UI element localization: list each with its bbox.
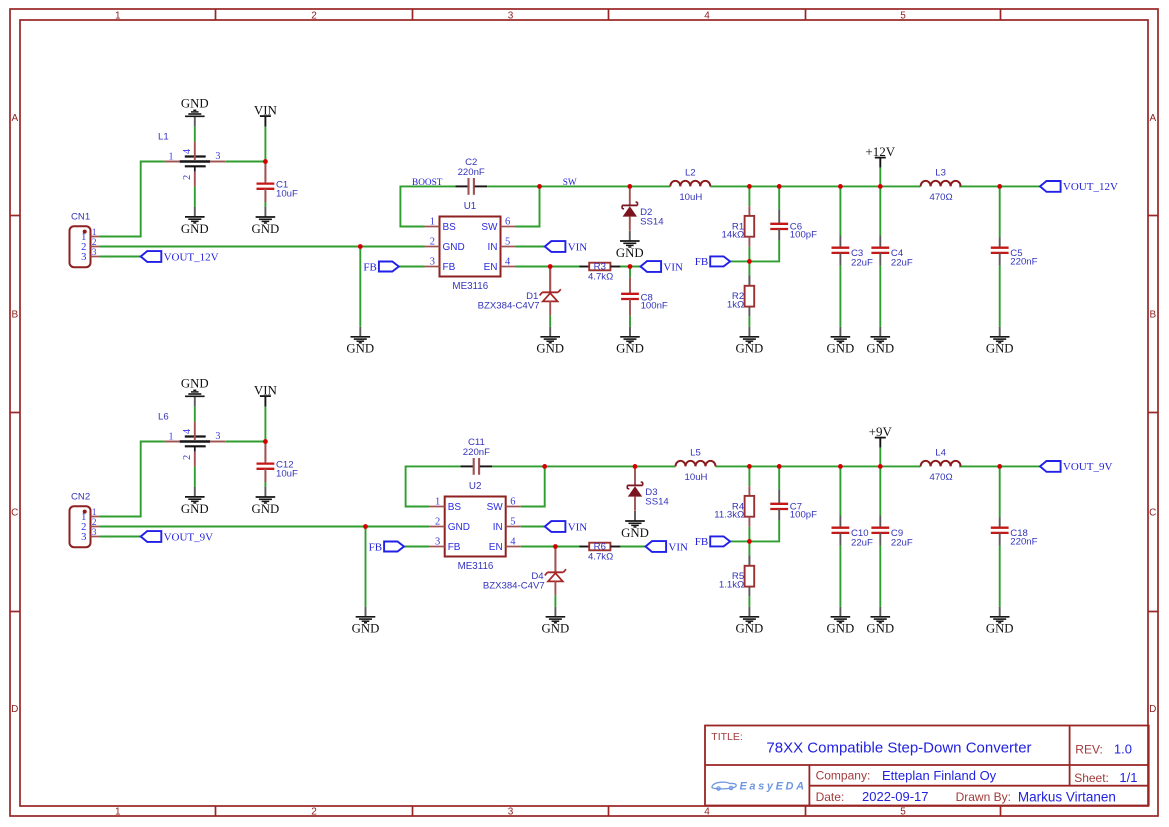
svg-text:3: 3 <box>81 252 86 263</box>
ground below L filter <box>181 487 209 516</box>
wire R2 to gnd <box>748 316 750 327</box>
wire FB flag to FB pin <box>399 266 425 268</box>
capacitor C4 <box>871 236 913 269</box>
svg-text:CN2: CN2 <box>71 492 90 503</box>
svg-text:VIN: VIN <box>568 521 588 533</box>
svg-text:2022-09-17: 2022-09-17 <box>862 789 929 804</box>
resistor R6 <box>579 541 620 562</box>
svg-text:SW: SW <box>487 502 504 513</box>
svg-text:22uF: 22uF <box>851 538 873 549</box>
svg-text:EN: EN <box>484 262 498 273</box>
capacitor C9 <box>871 516 913 549</box>
svg-text:6: 6 <box>505 217 510 228</box>
wire L filter pin4 to ground <box>194 406 196 421</box>
junction at D2 <box>627 184 632 189</box>
junction at D4 <box>553 544 558 549</box>
ground below C8 <box>616 327 644 356</box>
svg-text:3: 3 <box>92 248 97 258</box>
wire GND drop <box>365 527 367 607</box>
svg-text:4.7kΩ: 4.7kΩ <box>588 552 613 563</box>
junction VIN node <box>263 439 268 444</box>
junction C18 <box>997 464 1002 469</box>
wire CN pin2 to IC GND <box>99 246 424 248</box>
wire R2 to gnd <box>748 596 750 607</box>
junction FB node <box>747 259 752 264</box>
wire boost cap to SW node <box>487 185 539 187</box>
svg-text:B: B <box>1149 310 1156 321</box>
svg-text:GND: GND <box>986 622 1014 636</box>
svg-text:2: 2 <box>430 237 435 248</box>
capacitor C5 <box>991 237 1038 268</box>
svg-text:2: 2 <box>92 518 97 528</box>
ground below D3 <box>621 511 649 540</box>
svg-text:2: 2 <box>311 807 317 818</box>
ground below input cap <box>252 487 280 516</box>
wire EN pin <box>521 546 580 548</box>
ground below C18 <box>986 607 1014 636</box>
wire rail to C filter 2 <box>879 466 881 515</box>
inductor L6 <box>158 412 225 467</box>
wire L filter to VIN node <box>225 441 265 443</box>
ground below divider <box>736 607 764 636</box>
svg-text:REV:: REV: <box>1075 742 1103 756</box>
svg-text:100pF: 100pF <box>790 510 817 521</box>
capacitor C12 <box>257 442 299 483</box>
wire C out to gnd <box>999 266 1001 327</box>
svg-text:220nF: 220nF <box>1010 537 1037 548</box>
svg-text:SS14: SS14 <box>640 217 664 228</box>
svg-text:FB: FB <box>695 256 708 268</box>
svg-text:3: 3 <box>508 10 514 21</box>
wire BOOST <box>406 466 461 506</box>
wire C filter 1 to gnd <box>839 546 841 607</box>
ground below C5 <box>986 327 1014 356</box>
svg-text:GND: GND <box>448 522 470 533</box>
svg-text:Drawn By:: Drawn By: <box>956 790 1011 804</box>
wire C8 to gnd <box>629 316 631 327</box>
net flag VIN at IN pin <box>545 521 588 533</box>
wire GND drop <box>359 247 361 327</box>
ground below D4 <box>542 607 570 636</box>
wire L filter pin4 to ground <box>194 126 196 141</box>
svg-text:1: 1 <box>115 807 121 818</box>
svg-text:BOOST: BOOST <box>412 178 443 188</box>
EasyEDA logo <box>712 781 807 793</box>
svg-text:EasyEDA: EasyEDA <box>740 781 807 793</box>
svg-text:GND: GND <box>181 502 209 516</box>
wire L filter pin2 to ground <box>194 467 196 487</box>
net flag FB at divider <box>695 256 730 268</box>
svg-text:BS: BS <box>443 222 457 233</box>
svg-text:4: 4 <box>182 429 193 434</box>
svg-text:3: 3 <box>430 257 435 268</box>
svg-text:100pF: 100pF <box>790 230 817 241</box>
junction VIN node <box>263 159 268 164</box>
power flag VIN <box>254 102 278 161</box>
wire FB flag to divider <box>730 260 749 262</box>
svg-text:3: 3 <box>215 151 220 162</box>
svg-text:1.0: 1.0 <box>1114 741 1132 756</box>
svg-text:Markus Virtanen: Markus Virtanen <box>1018 789 1116 804</box>
junction SW node <box>542 464 547 469</box>
svg-text:+9V: +9V <box>869 424 893 439</box>
ground below C10 <box>827 607 855 636</box>
power flag VIN <box>254 382 278 441</box>
svg-text:4: 4 <box>510 537 516 548</box>
svg-text:10uH: 10uH <box>679 192 702 203</box>
net flag VIN at EN divider <box>641 261 684 273</box>
power flag +12V <box>865 144 895 187</box>
wire R2 lower <box>748 587 750 597</box>
svg-text:ME3116: ME3116 <box>458 561 494 572</box>
net flag VOUT_12V at output <box>1040 181 1118 193</box>
ground below input cap <box>252 207 280 236</box>
svg-text:2: 2 <box>182 455 193 460</box>
wire rail to C filter 1 <box>839 466 841 515</box>
svg-text:L3: L3 <box>935 168 946 179</box>
junction at D1 <box>548 264 553 269</box>
svg-text:L4: L4 <box>935 448 946 459</box>
svg-text:2: 2 <box>182 175 193 180</box>
wire R2 lower <box>748 307 750 317</box>
ground below divider <box>736 327 764 356</box>
svg-text:3: 3 <box>508 807 514 818</box>
wire C1 to gnd <box>264 482 266 487</box>
svg-text:5: 5 <box>900 807 906 818</box>
svg-text:GND: GND <box>866 342 894 356</box>
svg-text:VIN: VIN <box>254 382 278 397</box>
svg-text:220nF: 220nF <box>463 447 490 458</box>
inductor L3 <box>921 168 961 203</box>
svg-text:GND: GND <box>827 622 855 636</box>
svg-text:GND: GND <box>252 222 280 236</box>
svg-text:GND: GND <box>616 246 644 260</box>
svg-text:B: B <box>11 310 18 321</box>
junction comp cap top <box>777 464 782 469</box>
wire IN pin to VIN flag <box>521 526 545 528</box>
op-amp U1 <box>425 201 516 292</box>
svg-text:U1: U1 <box>464 201 477 212</box>
svg-text:GND: GND <box>827 342 855 356</box>
junction GND net <box>358 244 363 249</box>
wire FB node to R2 <box>748 556 750 566</box>
svg-text:D: D <box>1149 704 1156 715</box>
diode D2 <box>622 186 664 230</box>
svg-text:VOUT_9V: VOUT_9V <box>1063 461 1113 473</box>
svg-text:L2: L2 <box>685 168 696 179</box>
wire C1 lower lead <box>264 471 266 482</box>
wire FB flag to FB pin <box>404 546 430 548</box>
ground above L filter <box>181 97 209 127</box>
svg-text:GND: GND <box>536 342 564 356</box>
capacitor C11 <box>461 437 493 475</box>
svg-text:SW: SW <box>563 178 577 188</box>
net flag VOUT_12V at connector <box>141 251 219 263</box>
wire divider to cap <box>749 240 779 261</box>
junction FB node <box>747 539 752 544</box>
wire C filter 2 to gnd <box>879 266 881 327</box>
svg-text:Etteplan Finland Oy: Etteplan Finland Oy <box>882 768 997 783</box>
svg-text:VOUT_12V: VOUT_12V <box>1063 181 1118 193</box>
ground above L filter <box>181 377 209 407</box>
wire rail to comp cap <box>778 466 780 489</box>
svg-text:VIN: VIN <box>668 541 688 553</box>
svg-text:SW: SW <box>481 222 498 233</box>
inductor L1 <box>158 132 225 187</box>
svg-text:GND: GND <box>252 502 280 516</box>
svg-text:TITLE:: TITLE: <box>711 731 743 743</box>
wire inductor to output rail <box>716 465 921 467</box>
wire rail to C out <box>999 186 1001 237</box>
svg-text:5: 5 <box>505 237 510 248</box>
svg-text:100nF: 100nF <box>641 301 668 312</box>
svg-text:3: 3 <box>92 528 97 538</box>
svg-text:Date:: Date: <box>816 790 845 804</box>
wire FB node down <box>748 541 750 555</box>
svg-text:L1: L1 <box>158 132 169 143</box>
wire CN pin2 to IC GND <box>99 526 429 528</box>
wire rail to C filter 1 <box>839 186 841 235</box>
svg-text:C: C <box>11 508 18 519</box>
wire L filter pin2 to ground <box>194 187 196 207</box>
svg-text:A: A <box>1149 113 1156 124</box>
inductor L2 <box>670 168 710 203</box>
wire EN pin <box>516 266 580 268</box>
svg-text:GND: GND <box>736 342 764 356</box>
svg-text:Sheet:: Sheet: <box>1074 771 1109 785</box>
junction C10 <box>838 464 843 469</box>
svg-text:3: 3 <box>435 537 440 548</box>
wire C filter 2 to gnd <box>879 546 881 607</box>
resistor R1 <box>722 206 755 247</box>
ground below L filter <box>181 207 209 236</box>
svg-text:470Ω: 470Ω <box>930 472 953 483</box>
svg-text:BZX384-C4V7: BZX384-C4V7 <box>478 301 540 312</box>
svg-text:GND: GND <box>736 622 764 636</box>
diode D1 <box>478 267 561 316</box>
wire CN pin1 to L filter <box>99 162 164 237</box>
svg-text:4: 4 <box>704 10 710 21</box>
resistor R3 <box>579 261 620 282</box>
svg-text:1: 1 <box>115 10 121 21</box>
svg-text:Company:: Company: <box>816 769 871 783</box>
inductor L4 <box>921 448 961 483</box>
svg-text:220nF: 220nF <box>1010 257 1037 268</box>
svg-text:4.7kΩ: 4.7kΩ <box>588 272 613 283</box>
title block <box>705 726 1149 806</box>
svg-text:GND: GND <box>866 622 894 636</box>
capacitor C3 <box>832 236 874 269</box>
ground below D2 <box>616 231 644 260</box>
junction +12V node <box>878 184 883 189</box>
junction at D3 <box>633 464 638 469</box>
svg-text:GND: GND <box>616 342 644 356</box>
svg-text:GND: GND <box>352 622 380 636</box>
svg-text:GND: GND <box>346 342 374 356</box>
svg-text:GND: GND <box>443 242 465 253</box>
svg-text:1/1: 1/1 <box>1119 770 1137 785</box>
ground below C4 <box>866 327 894 356</box>
capacitor C8 <box>621 277 668 316</box>
capacitor C2 <box>455 157 487 195</box>
net flag VOUT_9V at output <box>1040 461 1112 473</box>
resistor R4 <box>714 486 754 527</box>
wire CN pin3 to VOUT flag <box>99 256 140 258</box>
wire R to FB node <box>748 527 750 542</box>
wire BOOST <box>400 186 455 226</box>
ground at IC GND net <box>346 327 374 356</box>
net flag VIN at EN divider <box>646 541 689 553</box>
svg-text:1: 1 <box>430 217 435 228</box>
svg-text:1: 1 <box>92 508 97 518</box>
diode D3 <box>627 466 669 510</box>
svg-text:6: 6 <box>510 497 515 508</box>
power flag +9V <box>869 424 893 467</box>
svg-text:U2: U2 <box>469 481 482 492</box>
svg-text:C: C <box>1149 508 1156 519</box>
wire C filter 1 to gnd <box>839 266 841 327</box>
wire rail to R divider <box>748 186 750 206</box>
wire C1 to gnd <box>264 202 266 207</box>
wire zener to gnd <box>554 595 556 607</box>
wire inductor to output rail <box>710 185 920 187</box>
wire CN pin1 to L filter <box>99 442 164 517</box>
net flag VIN at IN pin <box>545 241 588 253</box>
net flag VOUT_9V at connector <box>141 531 213 543</box>
wire R to FB node <box>748 247 750 262</box>
resistor R5 <box>719 556 754 591</box>
wire boost cap to SW node <box>492 465 544 467</box>
svg-text:470Ω: 470Ω <box>930 192 953 203</box>
svg-text:10uF: 10uF <box>276 189 298 200</box>
wire SW net <box>540 185 671 187</box>
capacitor C6 <box>770 210 817 241</box>
wire EN node to zener <box>549 267 551 293</box>
junction divider top <box>747 184 752 189</box>
svg-text:10uF: 10uF <box>276 469 298 480</box>
svg-text:1kΩ: 1kΩ <box>727 300 744 311</box>
diode D4 <box>483 547 566 596</box>
svg-text:2: 2 <box>435 517 440 528</box>
svg-text:11.3kΩ: 11.3kΩ <box>714 510 744 521</box>
svg-text:5: 5 <box>900 10 906 21</box>
wire cap drop <box>629 267 631 278</box>
net flag FB at U2 <box>369 541 404 553</box>
wire SW pin <box>521 466 545 506</box>
svg-text:BZX384-C4V7: BZX384-C4V7 <box>483 581 545 592</box>
svg-text:1: 1 <box>92 228 97 238</box>
wire to VOUT flag <box>959 465 1040 467</box>
op-amp U2 <box>430 481 521 572</box>
svg-text:VIN: VIN <box>254 102 278 117</box>
wire C out to gnd <box>999 546 1001 607</box>
svg-text:A: A <box>11 113 18 124</box>
svg-text:4: 4 <box>704 807 710 818</box>
wire to VOUT flag <box>959 185 1040 187</box>
junction +9V node <box>878 464 883 469</box>
capacitor C10 <box>832 516 874 549</box>
wire zener to gnd <box>549 315 551 327</box>
junction GND net <box>363 524 368 529</box>
svg-text:IN: IN <box>493 522 503 533</box>
wire IN pin to VIN flag <box>516 246 545 248</box>
svg-text:3: 3 <box>215 431 220 442</box>
connector CN2 <box>70 492 100 548</box>
junction divider top <box>747 464 752 469</box>
wire VIN node to C1 <box>264 162 266 182</box>
net flag FB at U1 <box>363 261 398 273</box>
svg-text:4: 4 <box>505 257 511 268</box>
ground below C9 <box>866 607 894 636</box>
svg-text:FB: FB <box>369 541 382 553</box>
svg-text:78XX Compatible Step-Down Conv: 78XX Compatible Step-Down Converter <box>766 739 1031 756</box>
junction C5 <box>997 184 1002 189</box>
svg-text:CN1: CN1 <box>71 212 90 223</box>
wire FB node to R2 <box>748 276 750 286</box>
svg-text:FB: FB <box>695 536 708 548</box>
svg-text:FB: FB <box>443 262 456 273</box>
svg-text:BS: BS <box>448 502 462 513</box>
inductor L5 <box>676 448 716 483</box>
svg-text:+12V: +12V <box>865 144 895 159</box>
svg-text:ME3116: ME3116 <box>452 281 488 292</box>
svg-text:1: 1 <box>169 431 174 442</box>
junction <box>628 264 633 269</box>
svg-text:10uH: 10uH <box>685 472 708 483</box>
svg-text:VIN: VIN <box>568 241 588 253</box>
wire R to VIN flag <box>620 546 645 548</box>
svg-text:EN: EN <box>489 542 503 553</box>
svg-text:1: 1 <box>435 497 440 508</box>
svg-text:VIN: VIN <box>663 261 683 273</box>
svg-text:FB: FB <box>363 261 376 273</box>
wire EN node to zener <box>554 547 556 573</box>
wire VIN node to C1 <box>264 442 266 462</box>
svg-text:3: 3 <box>81 532 86 543</box>
ground at IC GND net <box>352 607 380 636</box>
svg-text:VOUT_9V: VOUT_9V <box>164 531 214 543</box>
wire rail to comp cap <box>778 186 780 209</box>
svg-text:GND: GND <box>621 526 649 540</box>
wire CN pin3 to VOUT flag <box>99 536 140 538</box>
wire C1 lower lead <box>264 191 266 202</box>
ground below C3 <box>827 327 855 356</box>
svg-text:2: 2 <box>311 10 317 21</box>
wire L filter to VIN node <box>225 161 265 163</box>
svg-text:GND: GND <box>181 222 209 236</box>
svg-text:22uF: 22uF <box>891 538 913 549</box>
svg-text:1: 1 <box>169 151 174 162</box>
svg-text:GND: GND <box>986 342 1014 356</box>
svg-text:14kΩ: 14kΩ <box>722 230 745 241</box>
ground below D1 <box>536 327 564 356</box>
capacitor C18 <box>991 517 1038 548</box>
svg-text:GND: GND <box>542 622 570 636</box>
junction SW node <box>537 184 542 189</box>
svg-text:22uF: 22uF <box>851 258 873 269</box>
wire rail to C out <box>999 466 1001 517</box>
svg-text:L6: L6 <box>158 412 169 423</box>
svg-text:GND: GND <box>181 377 209 391</box>
capacitor C7 <box>770 490 817 521</box>
svg-text:22uF: 22uF <box>891 258 913 269</box>
svg-text:L5: L5 <box>690 448 701 459</box>
svg-text:D: D <box>11 704 18 715</box>
wire divider to cap <box>749 520 779 541</box>
svg-text:1.1kΩ: 1.1kΩ <box>719 580 744 591</box>
svg-text:FB: FB <box>448 542 461 553</box>
resistor R2 <box>727 276 754 311</box>
